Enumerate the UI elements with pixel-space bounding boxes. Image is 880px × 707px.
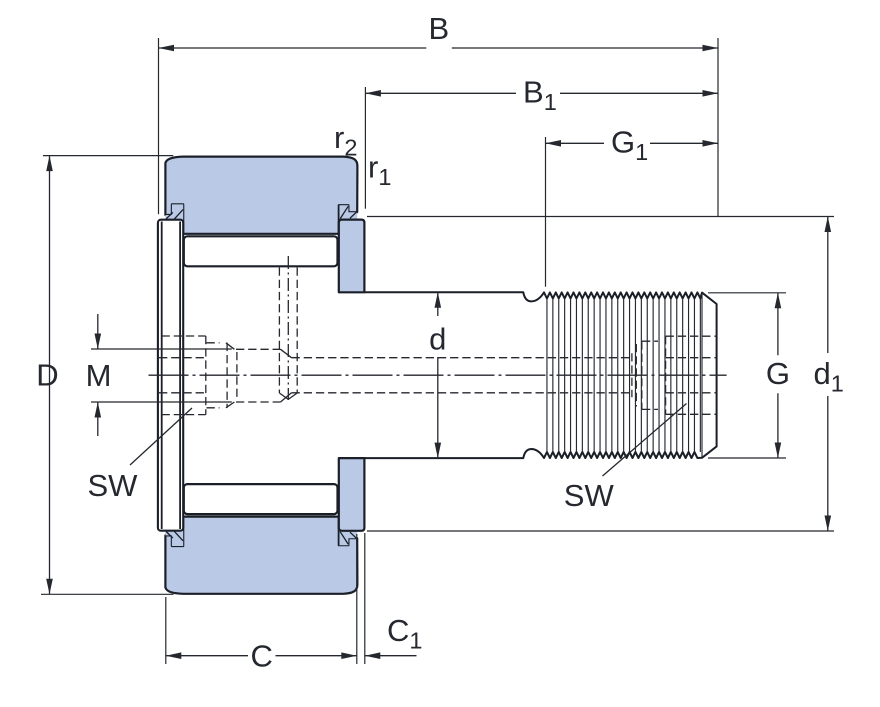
extension line B left [158,38,160,214]
dimension d1 [827,217,829,532]
svg-text:SW: SW [88,468,139,503]
svg-text:SW: SW [564,478,615,513]
svg-text:d: d [429,322,446,357]
extension line B1 left [364,87,366,209]
extension line C left [165,597,167,664]
seal strip top left [165,204,183,219]
extension line G bottom [708,457,786,459]
dimension G1 [546,142,719,144]
dimension d [437,292,439,458]
stud shaft and thread outline [364,292,716,458]
extension line M top [91,348,232,350]
extension line G1 left [545,137,547,287]
outer ring top section [165,157,357,234]
side washer end plate [158,220,183,531]
stud flange top section [339,220,365,293]
extension line d1 top [367,216,834,218]
needle roller top [184,236,338,266]
needle roller bottom [184,484,338,514]
dimension M [97,314,99,436]
extension line G top [708,292,786,294]
seal strip bottom right [340,531,358,545]
extension line C right [356,534,358,664]
seal strip top right [340,205,358,219]
cross hole drill point [279,393,297,399]
seal strip bottom left [165,531,183,546]
extension line M bottom [91,401,232,403]
left socket cone edges [226,343,292,408]
lubrication duct hidden lines [159,358,632,393]
lubrication cross hole hidden lines [279,268,297,394]
extension line right end [717,38,719,217]
svg-text:G: G [766,356,790,391]
main centerline [149,374,727,376]
right socket pilot hole [632,341,658,409]
dimension B1 [365,92,718,94]
thread end chamfer boundary [701,294,703,458]
outer ring bottom section [165,517,357,594]
svg-text:B: B [428,11,449,46]
right hex socket outline [666,336,717,414]
stud flange bottom section [339,458,365,531]
svg-text:D: D [36,358,58,393]
extension line D bottom [41,593,174,595]
dimension C [166,655,357,657]
dimension D [49,156,51,595]
svg-text:M: M [86,358,112,393]
extension line D top [43,155,173,157]
extension line C1 right [364,533,366,664]
thread root lines [547,298,700,452]
left hex socket outline [162,336,281,415]
lubrication hole centerline [287,256,289,400]
dimension C1 [365,655,417,657]
dimension B [159,47,719,49]
svg-text:C: C [251,639,273,674]
extension line d1 bottom [367,530,834,532]
dimension G [777,293,779,458]
